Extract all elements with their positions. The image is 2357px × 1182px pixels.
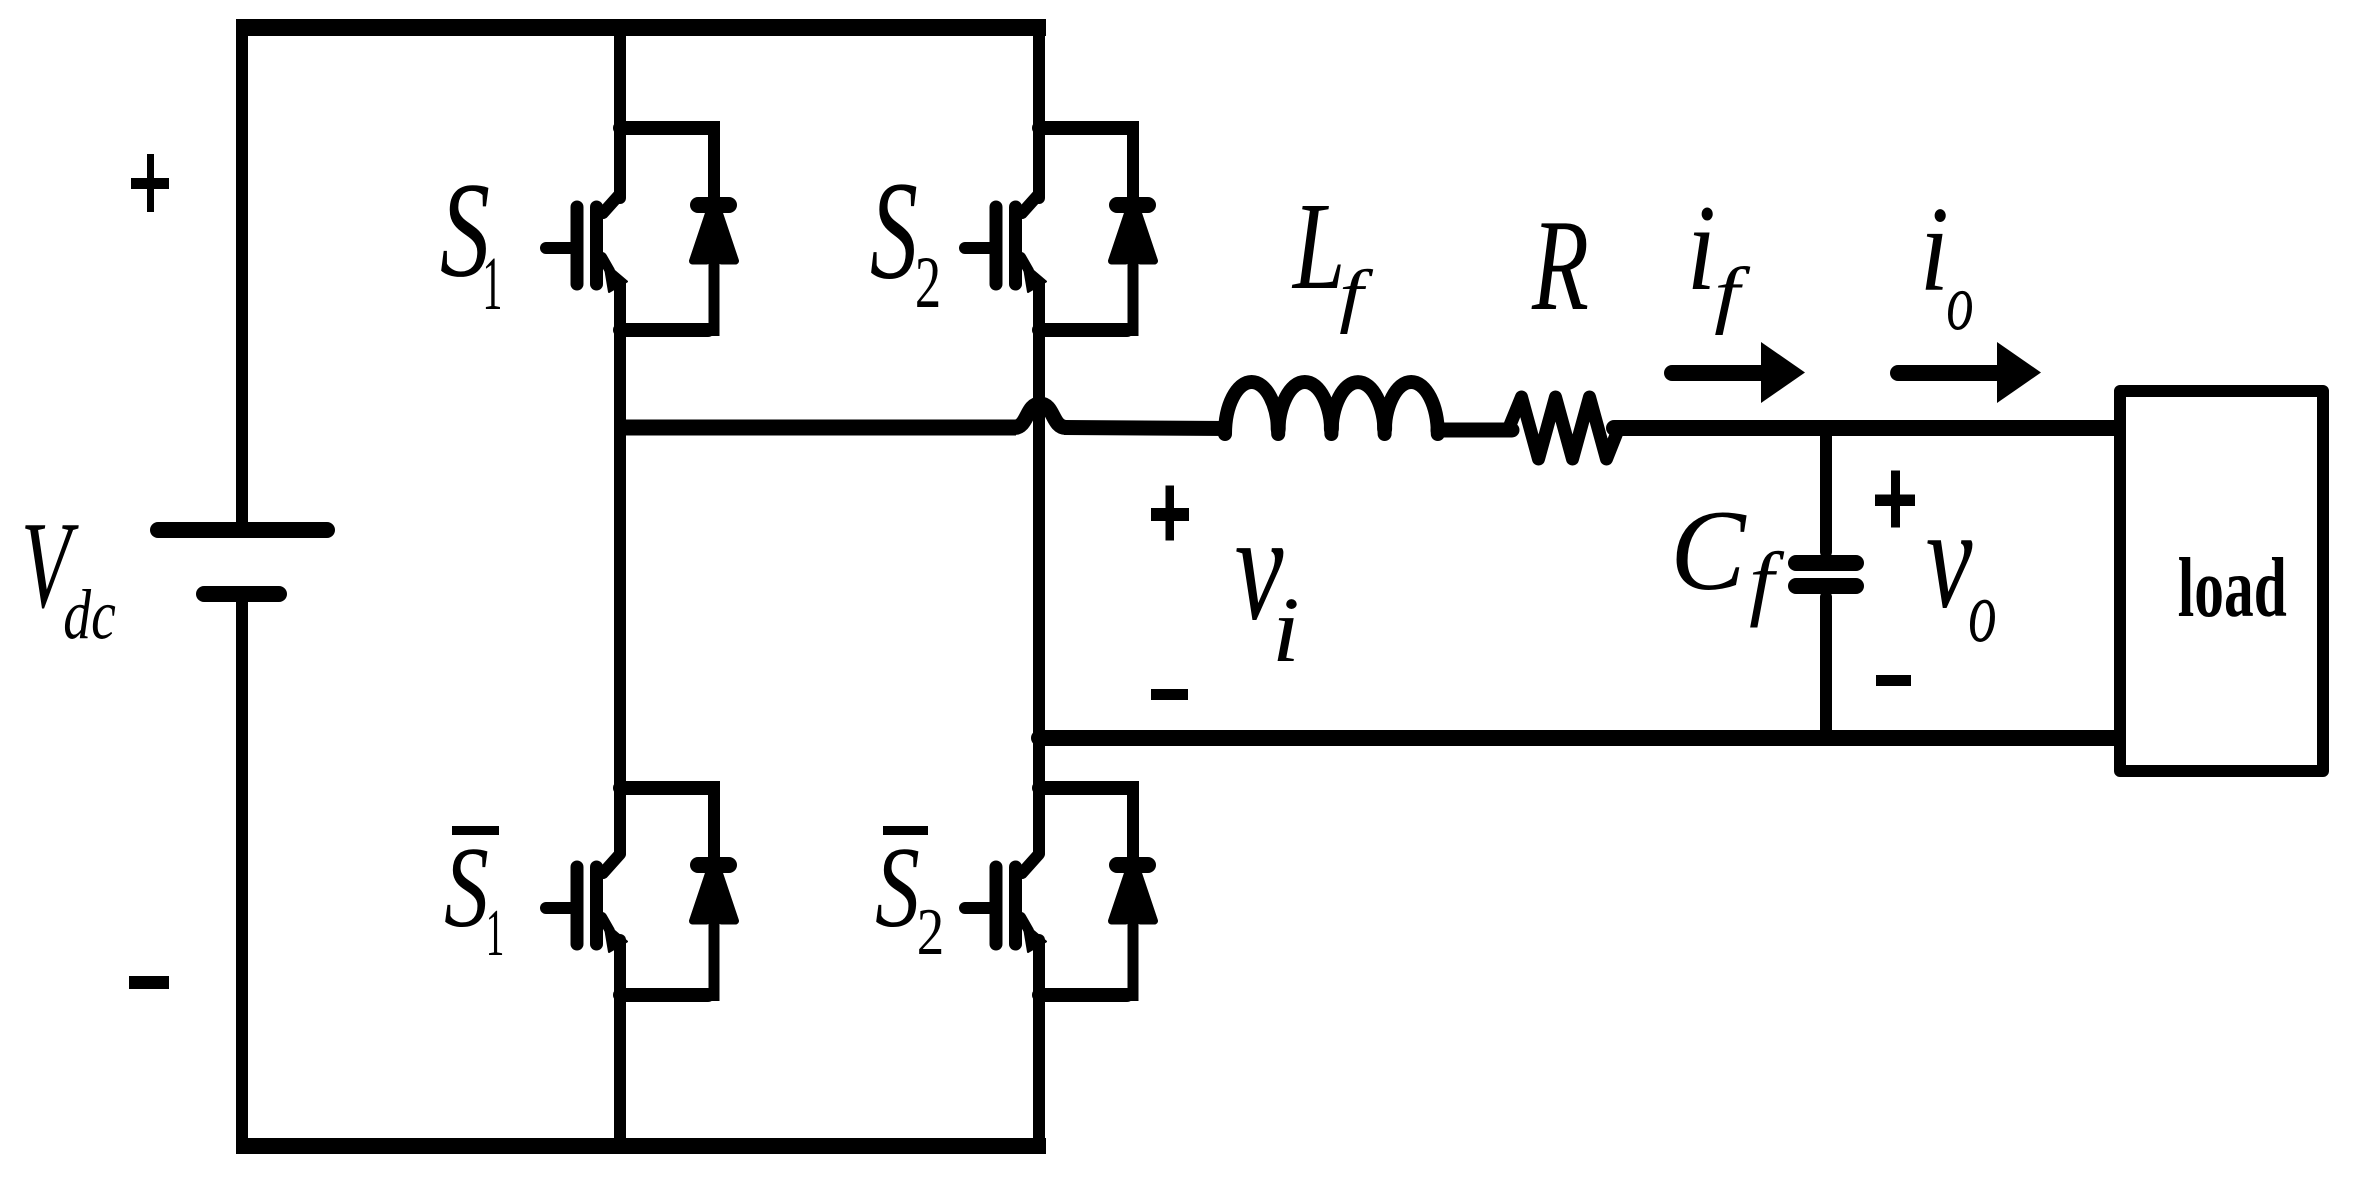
transistor S1bar IGBT with diode	[546, 781, 736, 1001]
svg-text:C: C	[1670, 486, 1747, 614]
diode D4 cathode lead	[1127, 781, 1139, 860]
plus sign of vo	[1875, 495, 1915, 507]
label io	[1920, 182, 1949, 317]
label load	[2178, 541, 2287, 635]
transistor S1bar body bar	[590, 867, 603, 944]
diode D1 cathode lead	[708, 121, 720, 200]
transistor S1bar gate lead	[546, 902, 571, 914]
transistor S2 emitter arrow	[1023, 262, 1046, 292]
transistor S1 emitter	[602, 257, 610, 271]
diode D3 anode lead	[709, 900, 720, 1001]
transistor S1 emitter arrow	[604, 262, 627, 292]
label vo	[1926, 478, 1973, 638]
wire left vertical lower	[236, 600, 248, 1146]
diode D2 body	[1112, 197, 1155, 261]
transistor S1 collector	[603, 194, 620, 213]
transistor S1bar collector	[603, 854, 620, 873]
transistor S2bar emitter	[1021, 917, 1029, 931]
wire top bus	[236, 19, 1046, 36]
diode D1 anode lead	[709, 240, 720, 336]
wire output lower from leg2 to load	[1039, 730, 2120, 746]
label R	[1531, 193, 1589, 338]
arrow current if	[1672, 365, 1763, 381]
wire leg2 lower section	[1033, 940, 1045, 1146]
diode D2 cathode bar	[1117, 197, 1148, 213]
wire S2bar box bottom rail	[1039, 988, 1127, 1002]
wire S2 box top rail	[1039, 121, 1127, 135]
battery Vdc top plate	[158, 522, 327, 538]
transistor S1 gate lead	[546, 242, 571, 254]
svg-text:R: R	[1531, 193, 1589, 338]
transistor S2 IGBT with diode	[965, 121, 1155, 336]
svg-text:1: 1	[486, 896, 505, 970]
resistor R	[1508, 397, 1618, 459]
svg-text:o: o	[1968, 563, 1996, 660]
diode D2 anode lead	[1128, 240, 1139, 336]
transistor S2bar collector	[1022, 854, 1039, 873]
capacitor Cf bottom plate	[1796, 578, 1856, 594]
diode D1 cathode bar	[698, 197, 729, 213]
diode D4 body	[1112, 857, 1155, 921]
wire S1bar box top rail	[620, 781, 708, 795]
transistor S1bar gate bar	[571, 867, 584, 944]
transistor S1bar emitter	[602, 917, 610, 931]
transistor S2bar body bar	[1009, 867, 1022, 944]
wire leg1 upper section	[614, 27, 626, 198]
wire bottom bus	[236, 1138, 1046, 1154]
battery Vdc bottom plate	[204, 586, 279, 602]
label S1bar	[444, 824, 489, 951]
wire output upper right of resistor	[1614, 420, 2120, 436]
wire S1 box bottom rail	[620, 323, 708, 337]
diode D4 anode lead	[1128, 900, 1139, 1001]
svg-text:L: L	[1291, 177, 1345, 315]
transistor S2bar gate lead	[965, 902, 990, 914]
label Lf	[1291, 177, 1345, 315]
minus sign of Vdc	[129, 976, 169, 989]
diode D2 cathode lead	[1127, 121, 1139, 200]
transistor S1 body bar	[590, 207, 603, 284]
transistor S1bar emitter arrow	[604, 922, 627, 952]
label S2	[870, 154, 918, 310]
svg-text:o: o	[1946, 256, 1973, 346]
wire leg1 middle section	[614, 283, 626, 853]
transistor S2bar gate bar	[990, 867, 1003, 944]
transistor S2 collector	[1022, 194, 1039, 213]
transistor S2bar IGBT with diode	[965, 781, 1155, 1001]
svg-text:v: v	[1926, 478, 1973, 638]
transistor S2 body bar	[1009, 207, 1022, 284]
capacitor Cf top plate	[1796, 555, 1856, 571]
label Vdc	[21, 496, 79, 634]
diode D1 body	[693, 197, 736, 261]
transistor S2 gate lead	[965, 242, 990, 254]
wire output upper left of hop	[620, 420, 1016, 436]
wire left vertical upper	[236, 30, 248, 524]
diode D3 cathode bar	[698, 857, 729, 873]
inductor Lf	[1225, 382, 1438, 434]
svg-text:i: i	[1687, 179, 1716, 316]
svg-text:i: i	[1272, 578, 1300, 682]
svg-text:2: 2	[917, 896, 944, 969]
minus sign of vo	[1876, 675, 1911, 686]
transistor S2 emitter	[1021, 257, 1029, 271]
diode D3 cathode lead	[708, 781, 720, 860]
wire output upper to inductor	[1064, 428, 1228, 429]
label S2bar	[875, 824, 920, 951]
wire leg2 upper section	[1033, 27, 1045, 198]
svg-text:i: i	[1920, 182, 1949, 317]
wire S1bar box bottom rail	[620, 988, 708, 1002]
load box	[2120, 391, 2323, 771]
diode D3 body	[693, 857, 736, 921]
capacitor Cf top lead	[1820, 428, 1832, 552]
diode D4 cathode bar	[1117, 857, 1148, 873]
svg-text:S: S	[870, 154, 918, 310]
wire crossover hop at leg2	[1014, 404, 1066, 428]
minus sign of vi	[1151, 689, 1188, 700]
plus sign of vi	[1151, 508, 1189, 521]
overbar of S1bar	[452, 826, 499, 835]
svg-text:S: S	[444, 824, 489, 951]
plus sign of Vdc	[131, 178, 169, 189]
transistor S1 IGBT with diode	[546, 121, 736, 336]
label Cf	[1670, 486, 1747, 614]
wire S2 box bottom rail	[1039, 323, 1127, 337]
wire S1 box top rail	[620, 121, 708, 135]
svg-text:dc: dc	[63, 575, 115, 654]
label if	[1687, 179, 1716, 316]
capacitor Cf bottom lead	[1820, 597, 1832, 738]
wire leg1 lower section	[614, 940, 626, 1146]
arrow current io	[1898, 365, 1999, 381]
label S1	[440, 154, 490, 306]
wire S2bar box top rail	[1039, 781, 1127, 795]
wire leg2 middle section	[1033, 283, 1045, 853]
wire between inductor and resistor	[1438, 423, 1512, 438]
svg-text:S: S	[875, 824, 920, 951]
transistor S2bar emitter arrow	[1023, 922, 1046, 952]
transistor S2 gate bar	[990, 207, 1003, 284]
svg-text:1: 1	[482, 243, 502, 327]
transistor S1 gate bar	[571, 207, 584, 284]
svg-text:load: load	[2178, 541, 2287, 635]
overbar of S2bar	[883, 826, 928, 835]
label vi	[1235, 482, 1284, 652]
svg-text:2: 2	[915, 241, 941, 323]
